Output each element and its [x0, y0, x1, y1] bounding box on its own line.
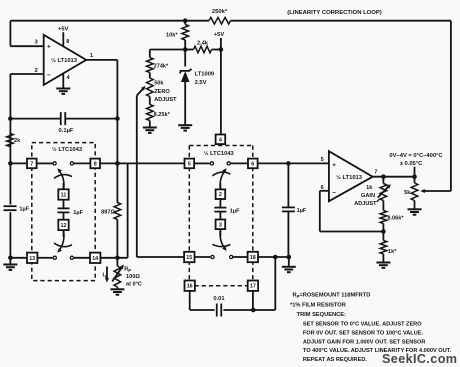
- svg-text:12: 12: [61, 223, 67, 229]
- svg-text:½ LTC1043: ½ LTC1043: [52, 146, 83, 153]
- svg-text:1k*: 1k*: [388, 249, 397, 255]
- svg-text:1µF: 1µF: [73, 210, 83, 216]
- svg-text:+: +: [47, 44, 51, 51]
- svg-text:7: 7: [374, 170, 377, 176]
- svg-text:4: 4: [219, 137, 222, 143]
- svg-text:REPEAT AS REQUIRED.: REPEAT AS REQUIRED.: [303, 357, 367, 363]
- svg-text:5: 5: [188, 161, 191, 167]
- svg-text:5: 5: [321, 157, 324, 163]
- svg-text:(LINEARITY CORRECTION LOOP): (LINEARITY CORRECTION LOOP): [287, 10, 382, 16]
- svg-text:SeekIC.com: SeekIC.com: [382, 352, 457, 366]
- svg-text:8.06k*: 8.06k*: [387, 215, 404, 221]
- svg-text:1k: 1k: [366, 185, 373, 191]
- svg-text:*1% FILM RESISTOR: *1% FILM RESISTOR: [290, 302, 346, 308]
- svg-text:50k: 50k: [154, 80, 164, 86]
- svg-text:½ LT1013: ½ LT1013: [51, 57, 78, 64]
- svg-text:100Ω: 100Ω: [126, 274, 140, 280]
- svg-text:−: −: [332, 189, 336, 196]
- svg-text:P: P: [128, 268, 131, 273]
- svg-text:at 0°C: at 0°C: [126, 281, 142, 287]
- svg-text:18: 18: [250, 255, 256, 261]
- svg-text:8.25k*: 8.25k*: [154, 112, 171, 118]
- svg-text:887Ω: 887Ω: [101, 210, 115, 216]
- svg-text:K: K: [105, 274, 108, 279]
- svg-text:0.1µF: 0.1µF: [59, 128, 74, 134]
- svg-text:8: 8: [94, 161, 97, 167]
- svg-text:2: 2: [35, 68, 38, 74]
- svg-text:15: 15: [186, 255, 192, 261]
- svg-text:250k*: 250k*: [212, 9, 228, 15]
- svg-text:5k: 5k: [404, 190, 411, 196]
- svg-text:LT1009: LT1009: [195, 72, 215, 78]
- svg-text:2k: 2k: [14, 138, 21, 144]
- svg-text:ADJUST GAIN FOR 1.000V OUT. SE: ADJUST GAIN FOR 1.000V OUT. SET SENSOR: [303, 339, 425, 345]
- svg-text:RP=ROSEMOUNT 118MFRTD: RP=ROSEMOUNT 118MFRTD: [293, 293, 371, 299]
- svg-text:1µF: 1µF: [230, 209, 240, 215]
- svg-text:10k*: 10k*: [166, 33, 178, 39]
- svg-text:SET SENSOR TO 0°C VALUE. ADJUS: SET SENSOR TO 0°C VALUE. ADJUST ZERO: [303, 322, 422, 328]
- svg-text:1µF: 1µF: [19, 207, 29, 213]
- svg-text:± 0.05°C: ± 0.05°C: [400, 161, 423, 167]
- svg-text:13: 13: [29, 256, 35, 262]
- svg-text:2: 2: [219, 192, 222, 198]
- svg-text:16: 16: [187, 284, 193, 290]
- svg-text:2.4k: 2.4k: [197, 41, 209, 47]
- svg-text:+5V: +5V: [214, 32, 225, 38]
- svg-text:2.5V: 2.5V: [195, 80, 207, 86]
- svg-text:3: 3: [219, 222, 222, 228]
- svg-text:1: 1: [90, 53, 93, 59]
- svg-text:0.01: 0.01: [213, 296, 225, 302]
- svg-text:½ LT1013: ½ LT1013: [336, 174, 363, 181]
- svg-text:+5V: +5V: [58, 27, 69, 33]
- svg-text:8: 8: [66, 39, 69, 45]
- svg-text:TRIM SEQUENCE:: TRIM SEQUENCE:: [297, 312, 346, 318]
- svg-text:6: 6: [251, 161, 254, 167]
- svg-text:ZERO: ZERO: [154, 89, 170, 95]
- svg-text:FOR 0V OUT. SET SENSOR TO 100°: FOR 0V OUT. SET SENSOR TO 100°C VALUE.: [303, 331, 424, 337]
- svg-text:−: −: [47, 72, 51, 79]
- svg-text:+: +: [332, 162, 336, 169]
- svg-text:0V–4V = 0°C–400°C: 0V–4V = 0°C–400°C: [389, 153, 443, 159]
- svg-text:11: 11: [61, 193, 67, 199]
- svg-text:ADJUST: ADJUST: [354, 201, 377, 207]
- svg-text:ADJUST: ADJUST: [154, 97, 177, 103]
- svg-text:3: 3: [35, 39, 38, 45]
- svg-text:14: 14: [92, 256, 98, 262]
- svg-text:GAIN: GAIN: [361, 193, 375, 199]
- svg-text:274k*: 274k*: [154, 63, 169, 69]
- svg-text:7: 7: [30, 161, 33, 167]
- svg-text:4: 4: [67, 75, 70, 81]
- svg-text:1µF: 1µF: [297, 208, 307, 214]
- svg-text:½ LTC1043: ½ LTC1043: [204, 150, 235, 157]
- svg-text:17: 17: [250, 284, 256, 290]
